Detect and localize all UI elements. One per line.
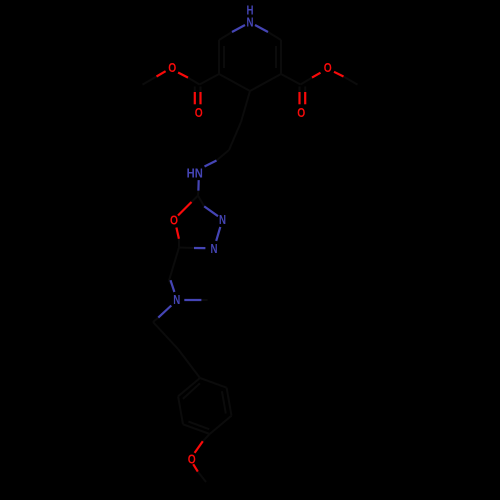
benzene C2'-C3' xyxy=(227,388,232,416)
svg-text:N: N xyxy=(247,16,254,30)
benzene C3'-C4' xyxy=(210,416,232,434)
C5 to left ester carbonyl C xyxy=(200,74,220,85)
left C=O dark top halves xyxy=(194,87,196,93)
dark carbon skeleton xyxy=(143,32,358,482)
Nam-CH2d blue half xyxy=(158,306,171,318)
svg-text:N: N xyxy=(173,293,180,307)
N1-C6 blue half xyxy=(232,25,245,32)
oxadiazole O1-C5 dark tail xyxy=(178,239,180,248)
ring C2=C3 inner double xyxy=(275,46,277,68)
C2ox-N3 blue half xyxy=(204,206,218,216)
ring C5-C4 xyxy=(219,74,250,91)
left ester O-CH3 red half xyxy=(157,71,166,76)
phenol O-C4' red half xyxy=(195,441,203,453)
svg-text:O: O xyxy=(168,61,176,75)
oxadiazole O1-C5 red half xyxy=(176,228,179,239)
ring right edge C3-C2 xyxy=(280,40,282,74)
DHP ring upper-right bond (dark part) xyxy=(268,32,281,40)
oxadiazole C2-N3 dark half xyxy=(198,196,204,207)
N1-C2 blue half xyxy=(255,25,268,32)
oxadiazole C2-O1 dark half xyxy=(192,196,199,202)
svg-text:O: O xyxy=(324,61,332,75)
oxadiazole C5-N4 dark half xyxy=(179,247,194,250)
svg-text:HN: HN xyxy=(187,166,203,180)
Nam-CH2g blue half xyxy=(171,280,175,292)
benzene C6'-C1' xyxy=(178,378,200,396)
C5ox - CH2g xyxy=(169,248,179,281)
left ester: C to O-ester dark half xyxy=(188,78,200,85)
CH2e-C1' xyxy=(178,349,200,378)
benzene C1'-C2' xyxy=(200,378,227,388)
left ester: O-CH3 dark half xyxy=(143,77,157,85)
N3-N4 bond xyxy=(216,227,220,241)
atom labels xyxy=(168,4,332,467)
C4 chain CH2a xyxy=(241,91,250,122)
C5ox-N4 blue half xyxy=(194,247,205,249)
right C=O dark top halves xyxy=(299,87,301,93)
right ester: O-CH3 dark half xyxy=(344,77,358,85)
amine N-CH2d dark tail xyxy=(153,318,158,322)
OMe dark tail xyxy=(198,472,206,482)
NH-C2ox blue half xyxy=(197,180,200,191)
benzene inner doubles xyxy=(222,391,226,413)
blue nitrogen bond halves xyxy=(158,25,268,318)
svg-text:O: O xyxy=(195,106,203,120)
CH2g toward amine N xyxy=(169,281,171,285)
left ester O-C red half xyxy=(178,73,188,78)
right C=O red lower halves xyxy=(298,92,300,104)
C4' to O dark half xyxy=(203,434,210,441)
ring left edge C6-C5 xyxy=(218,40,220,74)
red oxygen bond halves xyxy=(157,71,344,471)
CH2a-CH2b xyxy=(229,122,241,150)
DHP ring upper-left bond (dark part) xyxy=(219,32,232,40)
ring C5=C6 inner double xyxy=(223,46,225,68)
right ester O-C red half xyxy=(312,73,321,78)
benzene C4'-C5' xyxy=(183,424,210,434)
svg-text:N: N xyxy=(219,213,226,227)
amine N-CH3 dark tail xyxy=(201,299,207,301)
svg-text:O: O xyxy=(188,452,196,466)
ring C4-C3 xyxy=(250,74,281,91)
OMe red half xyxy=(193,464,198,471)
CH2d-CH2e xyxy=(153,322,178,349)
benzene C5'-C6' xyxy=(178,396,183,424)
oxadiazole O1-C2 red half xyxy=(178,202,192,216)
CH2b toward NH (dark half) xyxy=(217,150,230,161)
C3 to right ester carbonyl C xyxy=(281,74,301,85)
right ester: C to O-ester dark half xyxy=(301,78,313,85)
right ester O-CH3 red half xyxy=(334,72,344,77)
svg-text:N: N xyxy=(211,242,218,256)
left C=O red lower halves xyxy=(194,92,196,104)
NH to oxadiazole C2 (dark part) xyxy=(197,191,199,196)
Nam-CH3 blue half xyxy=(184,299,201,301)
svg-text:O: O xyxy=(297,106,305,120)
svg-text:O: O xyxy=(170,213,178,227)
NH-CH2b blue half xyxy=(205,161,217,167)
